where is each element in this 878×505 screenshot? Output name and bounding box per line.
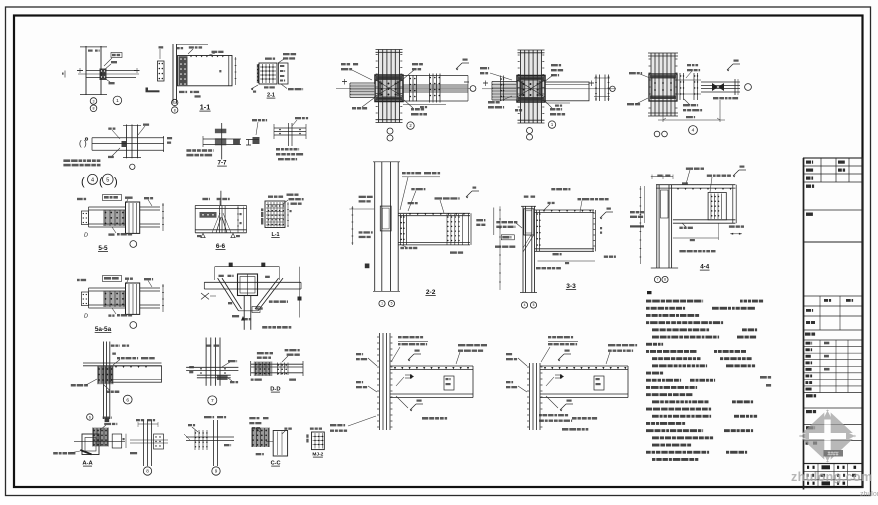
svg-text:D-D: D-D bbox=[270, 387, 280, 393]
svg-text:1: 1 bbox=[116, 98, 119, 104]
svg-text:1-1: 1-1 bbox=[200, 103, 210, 112]
svg-text:2-1: 2-1 bbox=[267, 93, 275, 99]
svg-text:4: 4 bbox=[524, 303, 526, 307]
svg-text:8: 8 bbox=[174, 108, 176, 112]
detail 2: interior rigid joint with haunch beams bbox=[336, 50, 476, 142]
svg-text:9: 9 bbox=[215, 469, 218, 474]
detail 4: column splice with bolted beam right bbox=[627, 53, 751, 137]
svg-text:8: 8 bbox=[146, 469, 149, 474]
section 5-5 beam-column moment joint bbox=[77, 195, 164, 253]
watermark dark label box bbox=[824, 450, 844, 457]
svg-text:5a-5a: 5a-5a bbox=[95, 326, 112, 333]
svg-text:A-A: A-A bbox=[82, 461, 93, 467]
connection plate bolt grid detail top bbox=[251, 53, 303, 99]
detail 4/5: pinned cross joint left bbox=[63, 124, 172, 189]
svg-text:(: ( bbox=[81, 176, 85, 188]
svg-text:6: 6 bbox=[89, 415, 91, 419]
section 2-2 rigid beam-column connection bbox=[349, 162, 485, 307]
general notes text block bbox=[646, 291, 771, 461]
section 6-6 braced beam joint bbox=[195, 191, 246, 250]
svg-text:5-5: 5-5 bbox=[98, 245, 108, 252]
svg-text:8: 8 bbox=[664, 278, 666, 282]
svg-text:2-2: 2-2 bbox=[426, 289, 436, 296]
detail 1: interior rigid joint with end-plate beam bbox=[480, 50, 616, 140]
svg-text:3: 3 bbox=[93, 99, 95, 103]
svg-text:): ) bbox=[114, 176, 118, 188]
svg-text:6: 6 bbox=[126, 397, 129, 403]
section A-A base detail bbox=[53, 414, 126, 467]
rigid beam-column joint elevation left bbox=[330, 333, 487, 432]
svg-text:8: 8 bbox=[93, 107, 95, 111]
small beam splice detail bbox=[274, 117, 308, 160]
detail 6: corner beam-column joint bbox=[71, 342, 162, 423]
rigid beam-column joint elevation right bbox=[506, 336, 637, 431]
section 3-3 roof beam-column connection bbox=[494, 188, 616, 308]
svg-text:1: 1 bbox=[381, 302, 383, 306]
svg-text:5: 5 bbox=[106, 177, 109, 183]
detail 9: column with end-plate beam bbox=[184, 416, 234, 475]
detail 1: column-beam pin joint plan top-left bbox=[62, 46, 140, 112]
svg-text:L-1: L-1 bbox=[271, 232, 279, 238]
title block bottom table bbox=[804, 464, 863, 488]
detail 8: column with side plate bbox=[130, 419, 168, 475]
svg-text:5: 5 bbox=[533, 303, 535, 307]
detail 7: column splice bbox=[186, 338, 238, 405]
svg-text:5: 5 bbox=[391, 302, 393, 306]
small tee stiffener detail bbox=[246, 119, 267, 145]
svg-text:4-4: 4-4 bbox=[700, 264, 710, 271]
svg-text:####: #### bbox=[827, 452, 838, 458]
section 5a-5a beam-column joint bbox=[77, 276, 164, 334]
svg-text:3-3: 3-3 bbox=[566, 283, 576, 290]
section D-D beam splice plan bbox=[251, 349, 303, 393]
svg-text:(: ( bbox=[79, 139, 82, 148]
section 1-1 beam end-plate side view bbox=[146, 44, 237, 113]
svg-text:zhulong.com: zhulong.com bbox=[791, 470, 872, 484]
svg-text:7: 7 bbox=[657, 278, 659, 282]
svg-text:D: D bbox=[84, 233, 88, 239]
section 4-4 corner roof connection bbox=[630, 166, 746, 283]
title block frame bbox=[804, 158, 863, 490]
svg-text:7-7: 7-7 bbox=[218, 160, 228, 167]
section C-C column face detail bbox=[249, 417, 291, 467]
svg-text:C-C: C-C bbox=[271, 461, 281, 467]
svg-text:7: 7 bbox=[211, 398, 214, 404]
svg-text:4: 4 bbox=[692, 128, 695, 134]
vertical brace connection elevation bbox=[201, 263, 302, 330]
svg-text:MJ-2: MJ-2 bbox=[312, 452, 323, 458]
svg-text:zhulong: zhulong bbox=[860, 491, 878, 498]
svg-text:4: 4 bbox=[91, 177, 94, 183]
plate MJ-2 bolt grid small bbox=[306, 428, 324, 458]
connection plate 'L-1' bolt grid middle bbox=[261, 194, 304, 239]
svg-text:D: D bbox=[84, 314, 88, 320]
svg-text:3: 3 bbox=[174, 101, 176, 105]
section 7-7 beam plan view bbox=[186, 123, 241, 167]
zhulong watermark pinwheel logo bbox=[799, 410, 856, 463]
svg-text:6-6: 6-6 bbox=[216, 243, 226, 250]
